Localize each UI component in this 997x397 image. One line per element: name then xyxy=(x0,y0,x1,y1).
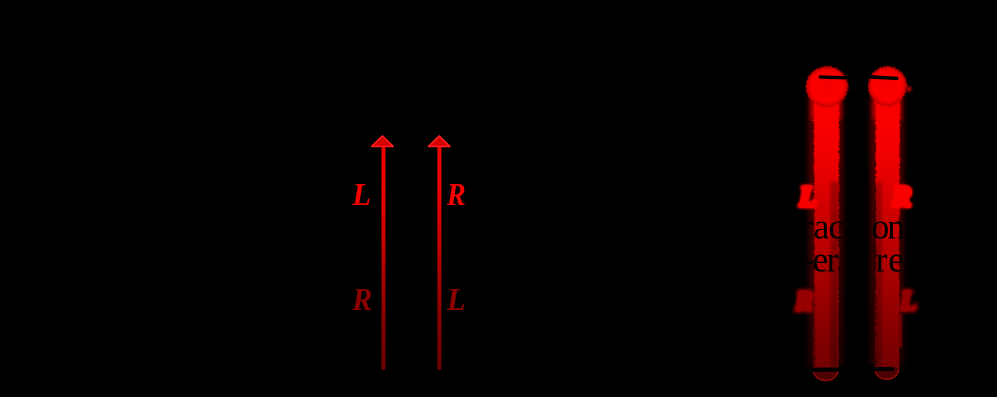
wire: black top dash across left glow blob xyxy=(820,75,847,79)
svg-text:L: L xyxy=(446,282,466,317)
svg-text:R: R xyxy=(794,285,814,317)
blurred right bar (glowing shaft) xyxy=(875,100,899,372)
svg-text:r: r xyxy=(827,240,839,280)
svg-text:L: L xyxy=(899,285,918,317)
tube edge highlight left bar xyxy=(814,290,838,368)
svg-text:e: e xyxy=(888,240,904,280)
blurred right bar side glow spill xyxy=(870,98,903,366)
wire: black bottom line across bars xyxy=(802,369,892,370)
wire: right sharp arrow shaft xyxy=(437,143,441,370)
bottom dome cap of left bar xyxy=(813,367,838,381)
svg-text:r: r xyxy=(801,207,813,247)
wire: black top dash across right glow blob xyxy=(867,77,897,79)
svg-text:R: R xyxy=(351,282,372,317)
blurred left bar (glowing shaft) xyxy=(813,100,839,372)
svg-text:L: L xyxy=(351,177,371,212)
glow blob on left bar (blurred arrowhead) xyxy=(804,65,848,107)
glow blob on right bar (blurred arrowhead) xyxy=(867,65,907,106)
arrowhead of left sharp arrow xyxy=(372,136,394,146)
inner shade column on left bar xyxy=(831,182,840,370)
inner shade column on right bar xyxy=(875,182,883,370)
blurred right bar glow flare xyxy=(873,94,902,120)
small glow fleck right of right blob xyxy=(906,86,911,91)
wire: left sharp arrow shaft xyxy=(382,143,386,370)
upper cap arc of right bar xyxy=(875,360,898,369)
blurred left bar side glow spill xyxy=(809,98,844,366)
arrowhead of right sharp arrow xyxy=(428,136,450,146)
bottom cap rim of right bar xyxy=(875,370,899,380)
bottom cap rim of left bar xyxy=(813,370,838,381)
svg-text:r: r xyxy=(876,240,888,280)
thin strip on right edge of right bar xyxy=(899,314,902,347)
blurred left bar glow flare xyxy=(811,94,842,120)
svg-text:R: R xyxy=(446,177,466,212)
tube edge highlight right bar xyxy=(876,290,899,368)
upper cap arc of left bar xyxy=(814,360,839,369)
text fragment line 1 over bars xyxy=(801,207,905,247)
text fragment line 2 over bars xyxy=(801,240,905,280)
bottom dome cap of right bar xyxy=(875,367,899,379)
